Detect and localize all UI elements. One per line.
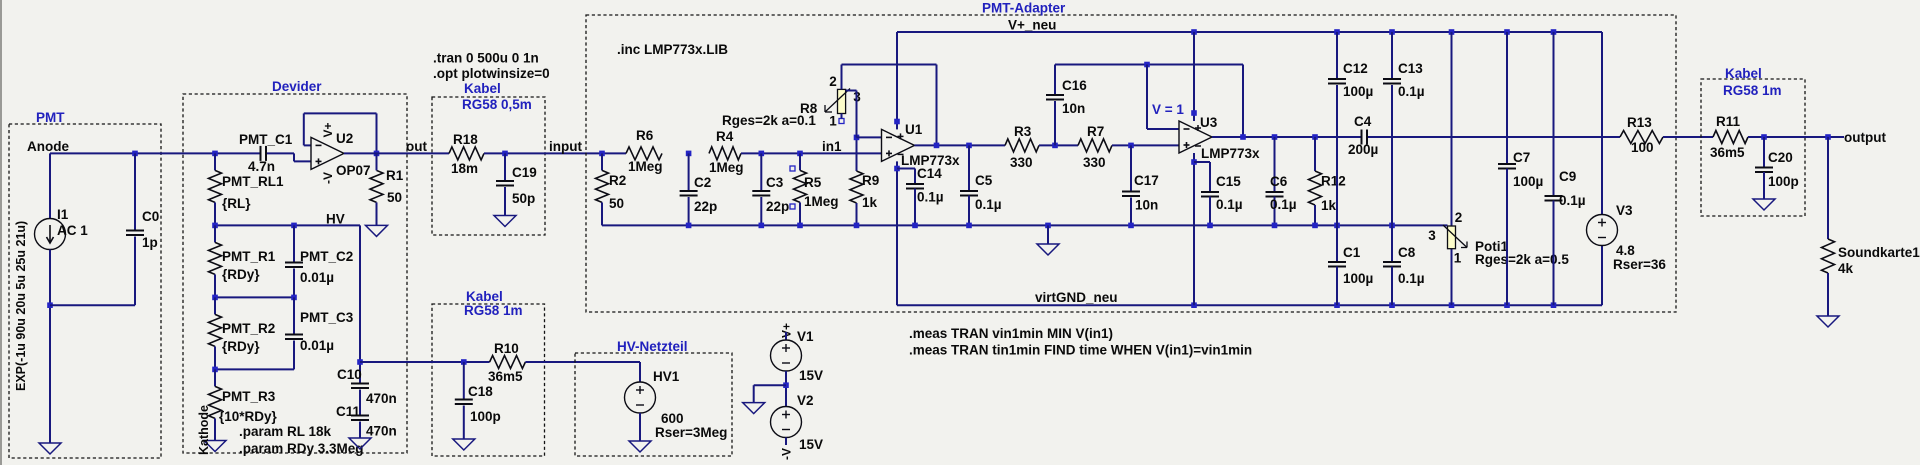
node out	[406, 139, 427, 154]
voltage source V2	[771, 393, 824, 452]
svg-text:V+_neu: V+_neu	[1008, 18, 1056, 33]
svg-text:PMT-Adapter: PMT-Adapter	[982, 1, 1066, 16]
resistor PMT_R2	[209, 297, 276, 369]
label Kabel 2	[466, 289, 503, 304]
directive param RL	[239, 424, 332, 439]
wire U1 V- down	[896, 161, 898, 305]
wire U2 out	[344, 152, 449, 154]
capacitor PMT_C1	[215, 132, 293, 174]
wire PMT_C1 right	[267, 152, 294, 154]
svg-text:R2: R2	[609, 173, 626, 188]
svg-text:Anode: Anode	[27, 139, 69, 154]
svg-text:0.1µ: 0.1µ	[975, 197, 1002, 212]
capacitor C3	[752, 153, 789, 225]
junction bus R9	[854, 223, 860, 229]
node in1	[822, 139, 842, 154]
wire R13 right	[1663, 136, 1713, 138]
junction C0 top	[132, 151, 138, 157]
svg-text:15V: 15V	[799, 437, 823, 452]
junction output	[1825, 134, 1831, 140]
resistor R7	[1078, 124, 1112, 170]
svg-text:RG58 1m: RG58 1m	[464, 303, 523, 318]
svg-text:C6: C6	[1270, 174, 1288, 189]
capacitor C13	[1383, 32, 1425, 225]
wire anode vertical	[49, 153, 51, 218]
wire HV down	[359, 225, 361, 382]
node Kathode	[197, 405, 211, 455]
capacitor C20	[1755, 137, 1799, 199]
svg-text:Kabel: Kabel	[466, 289, 503, 304]
junction bus C6	[1272, 223, 1278, 229]
capacitor C16	[1046, 65, 1087, 146]
svg-text:0.01µ: 0.01µ	[300, 270, 334, 285]
capacitor C10	[337, 367, 397, 415]
svg-text:.param RL 18k: .param RL 18k	[239, 424, 332, 439]
svg-text:Rges=2k a=0.1: Rges=2k a=0.1	[722, 113, 816, 128]
svg-text:I1: I1	[57, 207, 69, 222]
node Anode	[27, 139, 69, 154]
svg-text:Devider: Devider	[272, 79, 322, 94]
wire HV1 bottom	[639, 413, 641, 441]
wire R10 to HV1	[525, 362, 640, 382]
wire gnd bus	[602, 224, 1448, 226]
wire to Soundkarte	[1827, 137, 1829, 239]
resistor R13	[1620, 115, 1663, 155]
wire V3 top	[1601, 32, 1603, 215]
svg-text:4.8: 4.8	[1616, 243, 1635, 258]
junction U3 minus rail	[1144, 62, 1150, 68]
svg-text:R13: R13	[1627, 115, 1652, 130]
junction bus C17	[1128, 223, 1134, 229]
svg-text:2: 2	[829, 74, 837, 89]
label RG58 0,5m	[462, 97, 532, 112]
junction row2 right	[291, 295, 297, 301]
wire HV rail	[215, 224, 360, 226]
flag V- of V2	[780, 448, 794, 460]
svg-text:1: 1	[829, 114, 837, 129]
resistor R9	[850, 137, 879, 225]
svg-text:Soundkarte1: Soundkarte1	[1838, 245, 1920, 260]
ground C18	[453, 439, 475, 450]
capacitor C4	[1348, 114, 1378, 157]
svg-text:PMT_C3: PMT_C3	[300, 310, 354, 325]
junction U1 V- C14	[894, 166, 900, 172]
svg-text:U3: U3	[1200, 115, 1218, 130]
svg-text:R9: R9	[862, 173, 879, 188]
svg-text:-V: -V	[321, 172, 335, 184]
ground adapter	[1037, 244, 1059, 255]
svg-text:LMP773x: LMP773x	[1201, 146, 1260, 161]
wire R4 to U1	[741, 152, 882, 154]
capacitor C7	[1498, 32, 1543, 305]
junction U3 V- C15	[1191, 159, 1197, 165]
junction bus C13/C8	[1389, 223, 1395, 229]
label RG58 1m	[464, 303, 523, 318]
label PMT	[36, 110, 65, 125]
op-amp U2 V- pin	[321, 172, 335, 184]
wire U2 plus jog	[294, 153, 311, 161]
junction R9 minus node	[854, 135, 860, 141]
resistor R18	[449, 132, 484, 176]
svg-text:R5: R5	[804, 175, 822, 190]
svg-text:virtGND_neu: virtGND_neu	[1035, 290, 1118, 305]
junction I1/C0 bottom	[47, 302, 53, 308]
svg-text:R11: R11	[1716, 114, 1741, 129]
svg-text:1Meg: 1Meg	[628, 159, 663, 174]
svg-text:C17: C17	[1134, 173, 1159, 188]
box HV-Netzteil	[575, 353, 732, 456]
wire anode horizontal	[50, 152, 260, 154]
svg-text:C0: C0	[142, 209, 159, 224]
ground R1	[366, 225, 388, 236]
svg-text:V+: V+	[321, 122, 335, 137]
flag V+ of V1	[780, 323, 794, 338]
junction virtGND C7	[1504, 302, 1510, 308]
wire R7 to U1	[1112, 144, 1179, 146]
wire C0 bottom	[50, 237, 135, 306]
ground V1V2	[743, 403, 765, 414]
ground C20	[1753, 199, 1775, 210]
svg-text:1k: 1k	[1321, 198, 1337, 213]
label V = 1	[1152, 102, 1184, 117]
wire C4 to R13	[1368, 136, 1620, 138]
junction U2 output	[374, 151, 380, 157]
svg-text:1: 1	[1454, 251, 1462, 266]
svg-text:U1: U1	[905, 122, 923, 137]
svg-text:PMT_R2: PMT_R2	[222, 321, 275, 336]
resistor R5	[790, 153, 839, 225]
resistor R6	[626, 128, 663, 174]
junction C5 top	[966, 143, 972, 149]
resistor R4	[709, 129, 744, 175]
junction V+ rail C7	[1504, 29, 1510, 35]
svg-text:.opt plotwinsize=0: .opt plotwinsize=0	[433, 66, 550, 81]
label EXP source text	[14, 221, 28, 391]
wire row2	[215, 296, 294, 298]
capacitor C2	[680, 153, 718, 225]
svg-text:HV-Netzteil: HV-Netzteil	[617, 339, 688, 354]
junction virtGND C1	[1334, 302, 1340, 308]
svg-text:PMT_R3: PMT_R3	[222, 389, 276, 404]
node virtGND_neu	[1035, 290, 1118, 305]
wire R18 right	[484, 152, 626, 154]
svg-text:PMT_C1: PMT_C1	[239, 132, 293, 147]
ground Soundkarte	[1817, 316, 1839, 327]
capacitor PMT_C2	[285, 225, 353, 297]
wire to V1V2 ground	[754, 385, 786, 402]
voltage source HV1	[625, 369, 728, 440]
junction U1 fb	[934, 143, 940, 149]
svg-text:200µ: 200µ	[1348, 142, 1378, 157]
svg-text:0.1µ: 0.1µ	[1270, 197, 1297, 212]
svg-text:C18: C18	[468, 384, 493, 399]
svg-text:36m5: 36m5	[1710, 145, 1745, 160]
ground C19	[494, 216, 516, 227]
box PMT	[9, 124, 161, 458]
junction virtGND C9	[1551, 302, 1557, 308]
wire virtGND rail	[897, 304, 1602, 306]
resistor PMT_RL1	[209, 153, 285, 225]
wire U3 output	[1212, 136, 1361, 138]
resistor R10	[488, 341, 525, 384]
wire row3	[215, 368, 294, 370]
junction bus C12/C1	[1334, 223, 1340, 229]
junction R5 top	[797, 151, 803, 157]
svg-text:C11: C11	[336, 404, 361, 419]
svg-text:0.1µ: 0.1µ	[1559, 193, 1586, 208]
svg-text:OP07: OP07	[336, 163, 371, 178]
ground PMT	[39, 443, 61, 454]
wire R3 to R7	[1039, 144, 1078, 146]
svg-text:470n: 470n	[366, 424, 397, 439]
svg-text:{RDy}: {RDy}	[222, 267, 260, 282]
junction U1 V+ pin	[894, 119, 900, 125]
wire U3 fb rail	[1055, 64, 1243, 66]
resistor PMT_R1	[209, 225, 276, 297]
svg-text:input: input	[549, 139, 582, 154]
svg-text:3: 3	[1428, 228, 1436, 243]
directive param RDy	[239, 441, 364, 456]
resistor R11	[1710, 114, 1748, 160]
junction C3 top	[759, 151, 765, 157]
wire HV to R10	[360, 361, 490, 363]
label Rges Poti1	[1475, 252, 1569, 267]
directive opt	[433, 66, 550, 81]
svg-text:R18: R18	[453, 132, 478, 147]
label Devider	[272, 79, 322, 94]
op-amp U3	[1179, 115, 1260, 161]
junction C17 top	[1128, 143, 1134, 149]
box Devider	[183, 94, 407, 453]
svg-text:.inc LMP773x.LIB: .inc LMP773x.LIB	[617, 42, 728, 57]
junction bus gnd stub	[1045, 223, 1051, 229]
svg-text:100p: 100p	[470, 409, 501, 424]
voltage source V3	[1587, 203, 1667, 272]
svg-text:.meas TRAN vin1min MIN V(in1): .meas TRAN vin1min MIN V(in1)	[909, 326, 1113, 341]
svg-text:10n: 10n	[1135, 198, 1158, 213]
svg-text:C14: C14	[917, 166, 942, 181]
svg-text:V2: V2	[797, 393, 814, 408]
svg-text:470n: 470n	[366, 391, 397, 406]
svg-text:330: 330	[1083, 155, 1106, 170]
svg-text:100µ: 100µ	[1343, 271, 1373, 286]
svg-text:Kabel: Kabel	[1725, 66, 1762, 81]
svg-text:22p: 22p	[694, 199, 717, 214]
resistor R12	[1309, 137, 1346, 225]
svg-text:PMT: PMT	[36, 110, 65, 125]
svg-text:U2: U2	[336, 131, 353, 146]
svg-text:EXP(-1u 90u 20u 5u 25u 21u): EXP(-1u 90u 20u 5u 25u 21u)	[14, 221, 28, 391]
svg-text:.meas TRAN tin1min FIND time W: .meas TRAN tin1min FIND time WHEN V(in1)…	[909, 343, 1252, 358]
ground HV1	[629, 441, 651, 452]
junction bus C3	[759, 223, 765, 229]
capacitor C1	[1328, 225, 1373, 305]
label Rges R8	[722, 113, 816, 128]
wire V3 bottom	[1601, 246, 1603, 306]
capacitor C6	[1266, 137, 1297, 225]
svg-text:10n: 10n	[1062, 101, 1085, 116]
wire U2 feedback	[304, 113, 377, 153]
svg-text:50p: 50p	[512, 191, 535, 206]
box Kabel 1m rechts	[1701, 79, 1805, 216]
capacitor C11	[336, 404, 397, 439]
svg-text:C3: C3	[766, 175, 784, 190]
wire U3 V+ pin	[1193, 32, 1195, 121]
svg-text:18m: 18m	[451, 161, 478, 176]
svg-text:4k: 4k	[1838, 261, 1854, 276]
junction HV PMT_C2	[291, 223, 297, 229]
svg-text:V1: V1	[797, 329, 814, 344]
svg-text:.param RDy 3.3Meg: .param RDy 3.3Meg	[239, 441, 364, 456]
junction bus R5	[797, 223, 803, 229]
svg-text:HV: HV	[326, 212, 345, 227]
capacitor C17	[1122, 145, 1159, 225]
svg-text:600: 600	[661, 411, 684, 426]
wire C14 link	[897, 169, 915, 184]
box Kabel 1m links	[432, 304, 545, 456]
svg-text:output: output	[1844, 130, 1886, 145]
svg-text:50: 50	[387, 190, 402, 205]
svg-text:Rges=2k a=0.5: Rges=2k a=0.5	[1475, 252, 1569, 267]
junction V+ rail C13	[1389, 29, 1395, 35]
directive tran	[433, 51, 539, 66]
junction bus R12	[1312, 223, 1318, 229]
svg-text:R10: R10	[494, 341, 519, 356]
wire U3 V- down	[1193, 153, 1195, 305]
svg-text:V = 1: V = 1	[1152, 102, 1184, 117]
junction bus C15	[1207, 223, 1213, 229]
svg-text:RG58 0,5m: RG58 0,5m	[462, 97, 532, 112]
resistor R3	[1005, 124, 1039, 170]
svg-text:C16: C16	[1062, 78, 1087, 93]
svg-text:15V: 15V	[799, 368, 823, 383]
svg-text:{10*RDy}: {10*RDy}	[219, 409, 278, 424]
wire C15 link	[1194, 162, 1210, 191]
svg-text:2: 2	[1455, 210, 1463, 225]
node HV	[326, 212, 345, 227]
wire R8 wiper	[846, 91, 857, 138]
svg-text:R6: R6	[636, 128, 654, 143]
svg-text:C9: C9	[1559, 169, 1576, 184]
directive meas1	[909, 326, 1113, 341]
label Kabel	[464, 81, 501, 96]
svg-text:C19: C19	[512, 165, 537, 180]
svg-text:22p: 22p	[766, 199, 789, 214]
label Kabel 3	[1725, 66, 1762, 81]
wire R11 right	[1748, 136, 1844, 138]
junction input R2	[599, 151, 605, 157]
capacitor C8	[1383, 225, 1425, 305]
ground Kathode	[204, 441, 226, 452]
wire U1 output	[915, 144, 1006, 146]
capacitor C18	[455, 362, 501, 439]
svg-text:V3: V3	[1616, 203, 1633, 218]
svg-text:4.7n: 4.7n	[248, 159, 275, 174]
junction V+ rail Poti1	[1449, 29, 1455, 35]
wire V1 bottom	[785, 371, 787, 407]
junction HV RL1/R1	[212, 223, 218, 229]
svg-text:100: 100	[1631, 140, 1654, 155]
svg-text:330: 330	[1010, 155, 1033, 170]
svg-text:{RL}: {RL}	[222, 196, 251, 211]
junction C18	[461, 359, 467, 365]
label RG58 1m rechts	[1723, 83, 1782, 98]
svg-text:100µ: 100µ	[1343, 84, 1373, 99]
junction V+ rail C12	[1334, 29, 1340, 35]
svg-text:C4: C4	[1354, 114, 1372, 129]
svg-text:R12: R12	[1321, 174, 1346, 189]
junction V+ rail C9	[1551, 29, 1557, 35]
svg-text:C2: C2	[694, 175, 711, 190]
svg-text:AC 1: AC 1	[57, 223, 88, 238]
junction C6 top	[1272, 134, 1278, 140]
wire R8 pin2 up	[842, 65, 937, 146]
svg-text:R4: R4	[716, 129, 734, 144]
potentiometer R8	[800, 74, 861, 129]
svg-text:R1: R1	[386, 168, 404, 183]
svg-text:0.1µ: 0.1µ	[917, 190, 944, 205]
node input	[549, 139, 582, 154]
svg-text:1k: 1k	[862, 195, 878, 210]
svg-text:1Meg: 1Meg	[804, 194, 839, 209]
label Poti1	[1475, 239, 1508, 254]
svg-text:in1: in1	[822, 139, 842, 154]
svg-text:C7: C7	[1513, 150, 1530, 165]
node output	[1844, 130, 1886, 145]
svg-text:R7: R7	[1087, 124, 1104, 139]
capacitor PMT_C3	[285, 297, 354, 369]
wire minus input U1	[857, 136, 882, 138]
junction HV to R10	[357, 359, 363, 365]
junction V+ rail U3 V+	[1191, 29, 1197, 35]
svg-text:C15: C15	[1216, 174, 1241, 189]
svg-text:1Meg: 1Meg	[709, 160, 744, 175]
wire U3 minus drop	[1147, 65, 1179, 130]
label PMT-Adapter	[982, 1, 1066, 16]
svg-text:C13: C13	[1398, 61, 1423, 76]
svg-text:Kathode: Kathode	[197, 405, 211, 455]
svg-text:0.01µ: 0.01µ	[300, 338, 334, 353]
op-amp U1	[882, 122, 961, 168]
wire I1 bottom	[49, 250, 51, 444]
svg-text:PMT_R1: PMT_R1	[222, 249, 276, 264]
svg-text:-V: -V	[780, 448, 794, 460]
svg-text:Rser=3Meg: Rser=3Meg	[655, 425, 727, 440]
label HV-Netzteil	[617, 339, 688, 354]
svg-text:.tran 0 500u 0 1n: .tran 0 500u 0 1n	[433, 51, 539, 66]
wire U1 V+ pin	[896, 32, 898, 129]
directive inc	[617, 42, 728, 57]
junction U3 V+ pin	[1191, 110, 1197, 116]
svg-text:C20: C20	[1768, 150, 1793, 165]
directive meas2	[909, 343, 1252, 358]
ground C11	[349, 438, 371, 449]
junction C2 top	[686, 151, 692, 157]
svg-text:36m5: 36m5	[488, 369, 523, 384]
voltage source V1	[771, 329, 824, 383]
svg-text:0.1µ: 0.1µ	[1398, 271, 1425, 286]
wire gnd stub	[1047, 225, 1049, 244]
svg-text:C10: C10	[337, 367, 362, 382]
junction U3 out fb	[1240, 134, 1246, 140]
svg-text:50: 50	[609, 196, 624, 211]
wire V+_neu rail	[897, 31, 1602, 33]
svg-text:1p: 1p	[142, 235, 158, 250]
box PMT-Adapter	[586, 15, 1676, 312]
svg-text:100p: 100p	[1768, 174, 1799, 189]
op-amp U2 V+ pin	[321, 122, 335, 137]
junction V1/V2	[783, 382, 789, 388]
